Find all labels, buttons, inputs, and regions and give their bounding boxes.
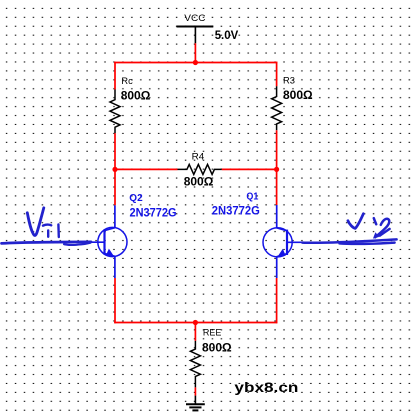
annotation Vi2 <box>348 214 390 239</box>
resistor REE <box>190 341 200 388</box>
wire right branch upper <box>276 62 278 87</box>
wire bottom rail to REE <box>194 323 196 341</box>
svg-text:R3: R3 <box>283 76 295 86</box>
wire VCC to top rail <box>194 43 196 62</box>
wire REE to ground <box>194 387 196 395</box>
junction mid left <box>112 167 117 172</box>
svg-text:VCC: VCC <box>184 13 205 24</box>
wire Q1 emitter down <box>276 278 278 323</box>
svg-text:5.0V: 5.0V <box>215 28 239 42</box>
annotation line Vi1 <box>2 242 92 245</box>
resistor R3 <box>272 86 282 130</box>
svg-text:800Ω: 800Ω <box>184 175 214 189</box>
annotation Vi1 <box>27 208 59 237</box>
junction bottom rail <box>193 320 198 325</box>
svg-text:R4: R4 <box>192 151 205 161</box>
svg-text:Rc: Rc <box>121 76 133 86</box>
resistor R4 <box>178 164 222 174</box>
wire Q2 emitter down <box>114 278 116 323</box>
transistor Q2 <box>82 205 127 278</box>
power VCC symbol <box>177 27 214 44</box>
junction top rail <box>193 60 198 65</box>
resistor Rc <box>110 90 120 134</box>
svg-text:Q2: Q2 <box>129 193 143 204</box>
svg-text:ybx8.cn: ybx8.cn <box>234 379 298 395</box>
junction mid right <box>274 167 279 172</box>
svg-text:800Ω: 800Ω <box>283 88 313 102</box>
wire left branch upper <box>114 62 116 90</box>
transistor Q1 <box>263 205 310 278</box>
svg-text:Q1: Q1 <box>246 191 258 202</box>
wire mid rail left <box>115 168 178 170</box>
svg-text:800Ω: 800Ω <box>202 340 232 354</box>
wire mid rail right <box>222 168 277 170</box>
wire left branch mid <box>114 133 116 205</box>
svg-text:REE: REE <box>203 328 222 338</box>
wire bottom rail <box>114 322 277 324</box>
svg-text:800Ω: 800Ω <box>121 88 151 102</box>
svg-text:2N3772G: 2N3772G <box>212 204 260 218</box>
wire right branch mid <box>276 130 278 205</box>
svg-text:2N3772G: 2N3772G <box>130 205 177 219</box>
annotation line Vi2 <box>302 239 396 243</box>
ground <box>186 396 205 411</box>
wire top rail <box>114 62 277 64</box>
